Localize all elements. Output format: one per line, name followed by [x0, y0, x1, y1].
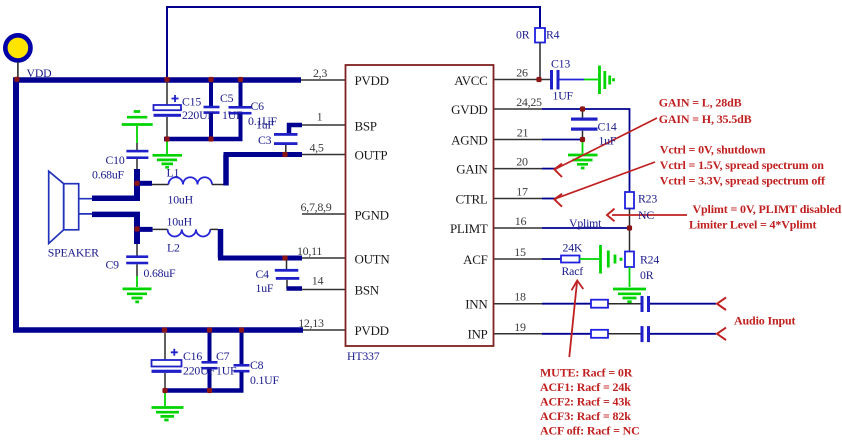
- svg-text:OUTP: OUTP: [355, 148, 388, 163]
- svg-text:ACF: ACF: [463, 252, 487, 267]
- capacitor C5: [209, 80, 213, 106]
- pin 15 stub ACF: [494, 258, 543, 260]
- pin 1 stub BSP: [302, 124, 346, 126]
- ground right of Racf: [580, 258, 600, 260]
- svg-text:SPEAKER: SPEAKER: [48, 246, 99, 260]
- svg-text:15: 15: [514, 245, 526, 259]
- ground below C16: [164, 392, 166, 406]
- svg-text:14: 14: [312, 274, 324, 288]
- svg-text:220UF: 220UF: [182, 108, 214, 122]
- svg-text:GAIN = H, 35.5dB: GAIN = H, 35.5dB: [659, 112, 752, 126]
- wire VDD thick rail top: [13, 77, 301, 83]
- pin 24,25 stub GVDD: [494, 108, 543, 110]
- wire bottom rail to PVDD 12,13: [13, 327, 303, 333]
- svg-text:4,5: 4,5: [309, 141, 323, 155]
- svg-text:GAIN: GAIN: [456, 162, 488, 177]
- wire GVDD line to R23 column: [542, 109, 630, 192]
- node bus/C15: [164, 136, 169, 141]
- svg-text:Vctrl = 3.3V, spread spectrum: Vctrl = 3.3V, spread spectrum off: [660, 174, 826, 188]
- svg-text:Racf: Racf: [562, 264, 584, 278]
- resistor R24: [629, 228, 631, 252]
- pin 2,3 stub PVDD: [301, 79, 346, 81]
- svg-text:17: 17: [516, 185, 528, 199]
- pin 6,7,8,9 stub PGND: [302, 213, 346, 215]
- svg-text:ACF3: Racf = 82k: ACF3: Racf = 82k: [540, 409, 631, 423]
- node C10/L1/speaker: [134, 181, 139, 186]
- ground below C15: [166, 141, 168, 154]
- pin 19 stub INP: [494, 333, 543, 335]
- pin 17 stub CTRL: [494, 198, 543, 200]
- wire L2 to OUTN: [218, 229, 224, 258]
- wire top loop from VDD rail to R4: [167, 7, 540, 79]
- node bottom rail/C7: [207, 327, 212, 332]
- node AGND/C14: [580, 137, 585, 142]
- svg-text:PLIMT: PLIMT: [450, 221, 488, 236]
- svg-text:HT337: HT337: [347, 349, 380, 363]
- svg-text:0.1UF: 0.1UF: [250, 373, 279, 387]
- svg-text:21: 21: [517, 126, 529, 140]
- capacitor C15 electrolytic: [166, 82, 168, 105]
- wire left vertical rail: [13, 78, 19, 330]
- svg-text:C10: C10: [106, 153, 125, 167]
- svg-text:AGND: AGND: [451, 133, 487, 148]
- capacitor C9: [136, 244, 138, 256]
- svg-text:20: 20: [516, 155, 528, 169]
- svg-text:1uF: 1uF: [256, 281, 274, 295]
- svg-text:Audio Input: Audio Input: [734, 314, 796, 328]
- VDD terminal: [5, 35, 30, 60]
- node rail/C15: [164, 77, 169, 82]
- svg-text:0R: 0R: [640, 268, 654, 282]
- ground below C14: [582, 141, 584, 154]
- svg-text:R4: R4: [546, 28, 560, 42]
- svg-text:C15: C15: [182, 95, 201, 109]
- svg-text:C16: C16: [183, 349, 202, 363]
- inductor L1: [152, 184, 169, 186]
- pin 12,13 stub PVDD: [303, 329, 346, 331]
- red annotation arrow to Racf: [569, 282, 577, 357]
- svg-text:1uF: 1uF: [256, 118, 274, 132]
- node C9/L2/speaker: [134, 226, 139, 231]
- wire PLIMT to junction: [542, 227, 630, 229]
- svg-text:12,13: 12,13: [298, 316, 324, 330]
- node AVCC/R4: [536, 77, 541, 82]
- pin 16 stub PLIMT: [494, 227, 543, 229]
- ground right of C13: [584, 79, 598, 81]
- svg-text:Vctrl = 0V, shutdown: Vctrl = 0V, shutdown: [660, 143, 766, 157]
- node rail/C6: [238, 77, 243, 82]
- resistor R23: [625, 192, 634, 209]
- svg-text:GAIN = L, 28dB: GAIN = L, 28dB: [659, 96, 742, 110]
- node bottom rail/C16: [162, 327, 167, 332]
- red annotation arrow to GAIN: [556, 118, 657, 169]
- svg-text:C7: C7: [216, 349, 230, 363]
- wire C10/speaker/L1 junction stub: [134, 169, 140, 201]
- loudspeaker LS1: [49, 171, 64, 243]
- svg-text:Vplimt = 0V, PLIMT disabled: Vplimt = 0V, PLIMT disabled: [693, 202, 842, 216]
- wire cap-bank bottom bus: [164, 137, 243, 142]
- INP arrowhead: [717, 328, 726, 341]
- svg-text:C4: C4: [256, 267, 270, 281]
- INN input network: wire, resistor, capacitor: [542, 303, 591, 305]
- node VDD rail junction: [14, 77, 19, 82]
- svg-text:C14: C14: [598, 120, 617, 134]
- wire speaker top terminal: [92, 195, 140, 201]
- wire AGND to C14 bottom: [542, 139, 583, 141]
- svg-text:L1: L1: [167, 166, 180, 180]
- capacitor C6: [239, 80, 243, 107]
- svg-text:INP: INP: [467, 327, 487, 342]
- red annotation arrow to CTRL: [555, 162, 655, 199]
- node PLIMT/R23/R24: [627, 225, 632, 230]
- node bottom bus/C16: [162, 388, 167, 393]
- svg-text:16: 16: [515, 214, 527, 228]
- svg-text:C3: C3: [258, 133, 272, 147]
- node bottom rail/C8: [239, 327, 244, 332]
- capacitor C4: [286, 260, 288, 269]
- svg-text:Limiter Level = 4*Vplimt: Limiter Level = 4*Vplimt: [689, 218, 816, 232]
- svg-text:1UF: 1UF: [553, 89, 574, 103]
- svg-text:0.68uF: 0.68uF: [92, 168, 125, 182]
- svg-text:OUTN: OUTN: [355, 252, 391, 267]
- svg-text:C9: C9: [106, 258, 120, 272]
- svg-text:0R: 0R: [516, 28, 530, 42]
- svg-text:C6: C6: [251, 99, 265, 113]
- node rail/C5: [208, 77, 213, 82]
- svg-text:Vctrl = 1.5V, spread spectrum: Vctrl = 1.5V, spread spectrum on: [660, 158, 824, 172]
- svg-text:ACF2: Racf = 43k: ACF2: Racf = 43k: [540, 395, 631, 409]
- svg-text:MUTE: Racf = 0R: MUTE: Racf = 0R: [540, 366, 633, 380]
- svg-text:24K: 24K: [563, 241, 583, 255]
- svg-text:CTRL: CTRL: [455, 192, 487, 207]
- svg-text:PVDD: PVDD: [355, 73, 389, 88]
- node GVDD/C14: [580, 106, 585, 111]
- resistor R4: [535, 28, 545, 43]
- wire L1 to OUTP: [223, 155, 229, 186]
- svg-text:220UF: 220UF: [183, 364, 215, 378]
- pin 14 stub BSN: [302, 289, 346, 291]
- capacitor C10: [136, 143, 138, 150]
- wire bottom terminal to L2/C9 stub: [134, 214, 140, 244]
- resistor Racf 24K: [542, 258, 561, 260]
- svg-text:Vplimt: Vplimt: [569, 216, 602, 230]
- svg-text:C13: C13: [551, 57, 570, 71]
- wire GAIN pin short: [542, 168, 557, 170]
- wire bottom cap-bank bus: [163, 388, 244, 393]
- svg-text:PGND: PGND: [355, 208, 389, 223]
- svg-text:R24: R24: [640, 253, 659, 267]
- svg-text:26: 26: [516, 66, 528, 80]
- svg-text:INN: INN: [465, 297, 488, 312]
- op IC U1 HT337 box: [346, 65, 494, 346]
- node OUTP/C3: [282, 152, 287, 157]
- capacitor C3: [274, 133, 298, 136]
- node bottom bus/C7: [207, 388, 212, 393]
- svg-text:BSP: BSP: [355, 119, 377, 134]
- ground below R24: [629, 267, 631, 287]
- svg-text:1UF: 1UF: [222, 108, 243, 122]
- svg-text:0.68uF: 0.68uF: [144, 266, 177, 280]
- wire CTRL pin short: [542, 198, 557, 200]
- capacitor C14: [582, 109, 584, 118]
- svg-text:C8: C8: [250, 358, 264, 372]
- svg-text:10uH: 10uH: [167, 215, 193, 229]
- svg-text:1uF: 1uF: [599, 134, 617, 148]
- svg-text:1: 1: [317, 110, 323, 124]
- svg-text:NC: NC: [638, 208, 654, 222]
- svg-text:6,7,8,9: 6,7,8,9: [301, 200, 332, 214]
- svg-text:24,25: 24,25: [516, 95, 542, 109]
- svg-text:10,11: 10,11: [297, 244, 322, 258]
- wire BSP to C3: [289, 125, 302, 134]
- svg-text:L2: L2: [167, 241, 180, 255]
- capacitor C8: [240, 332, 244, 364]
- svg-text:ACF1: Racf = 24k: ACF1: Racf = 24k: [540, 380, 631, 394]
- svg-text:1UF: 1UF: [216, 364, 237, 378]
- wire C4 to BSN: [287, 286, 303, 291]
- capacitor C16 electrolytic: [164, 333, 166, 360]
- wire speaker bottom terminal: [92, 212, 140, 218]
- pin 4,5 stub OUTP: [302, 154, 346, 156]
- svg-text:R23: R23: [638, 192, 657, 206]
- svg-text:GVDD: GVDD: [451, 102, 487, 117]
- svg-text:VDD: VDD: [27, 66, 53, 80]
- svg-text:2,3: 2,3: [313, 66, 327, 80]
- ground below C9: [136, 276, 138, 287]
- pin 26 stub AVCC: [494, 79, 551, 81]
- capacitor C13: [550, 70, 553, 90]
- INN arrowhead: [717, 298, 726, 311]
- inverted ground above C10: [122, 112, 153, 125]
- pin 20 stub GAIN: [494, 168, 543, 170]
- svg-text:AVCC: AVCC: [454, 73, 487, 88]
- svg-text:BSN: BSN: [355, 283, 380, 298]
- pin 18 stub INN: [494, 303, 543, 305]
- svg-text:PVDD: PVDD: [355, 323, 389, 338]
- svg-text:C5: C5: [220, 91, 234, 105]
- svg-text:ACF off: Racf = NC: ACF off: Racf = NC: [540, 424, 640, 438]
- red annotation arrow to Vplimt: [612, 214, 687, 216]
- node bus/C5: [208, 136, 213, 141]
- node OUTN/C4: [282, 255, 287, 260]
- inductor L2: [153, 228, 168, 230]
- INP input network: wire, resistor, capacitor: [542, 333, 591, 335]
- pin 10,11 stub OUTN: [302, 257, 346, 259]
- svg-text:10uH: 10uH: [168, 193, 194, 207]
- svg-text:19: 19: [514, 320, 526, 334]
- svg-text:18: 18: [514, 290, 526, 304]
- pin 21 stub AGND: [494, 139, 543, 141]
- capacitor C7: [208, 332, 212, 361]
